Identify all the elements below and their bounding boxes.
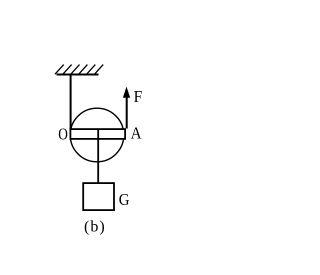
- hatch stroke 6: [95, 65, 104, 75]
- svg-text:G: G: [119, 190, 130, 209]
- force arrow F shaft: [126, 96, 128, 129]
- svg-text:(b): (b): [84, 218, 106, 235]
- hatch stroke 4: [79, 65, 88, 75]
- svg-text:A: A: [131, 123, 143, 142]
- force arrow F head: [123, 88, 130, 98]
- hatch stroke 3: [71, 65, 80, 75]
- ceiling line: [57, 74, 99, 76]
- bar OA rectangle through pulley: [70, 129, 125, 139]
- left rope from ceiling to bar: [70, 75, 72, 129]
- hatch stroke 1: [55, 65, 64, 75]
- svg-text:F: F: [134, 87, 143, 106]
- center hanger rod: [97, 130, 99, 183]
- hatch stroke 2: [63, 65, 72, 75]
- svg-text:O: O: [58, 125, 68, 144]
- weight box G: [83, 183, 114, 210]
- hatch stroke 5: [87, 65, 96, 75]
- pulley wheel circle: [70, 108, 124, 162]
